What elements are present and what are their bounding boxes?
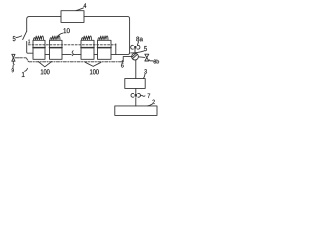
valve 8a body xyxy=(134,46,136,49)
leader for label 2 xyxy=(148,104,153,106)
label 100 left xyxy=(41,69,50,74)
dashed pipe segment xyxy=(20,57,26,59)
node label 1 (small) xyxy=(28,40,30,44)
valve 7 brackets xyxy=(131,93,141,97)
label 4 xyxy=(84,3,87,8)
pipe from tank 3 to valve 7 xyxy=(135,88,137,93)
series connector canister2-3 with break xyxy=(62,53,81,55)
supply valve 9 xyxy=(12,54,15,61)
pump internal marks xyxy=(132,53,137,58)
divider canister 3 xyxy=(81,47,94,49)
label 8b xyxy=(154,59,159,63)
wavy leader for label 7 xyxy=(140,94,145,97)
leader for label 5 xyxy=(16,36,22,38)
label 100 right xyxy=(90,69,99,74)
series connector canister1-2 xyxy=(45,53,50,55)
label 100 left pair leaders xyxy=(38,62,52,67)
heater coil on canister 3 xyxy=(81,36,91,40)
wire from box 4 right down right side xyxy=(84,16,130,54)
power supply box 4 xyxy=(61,11,84,23)
pipe riser to pump xyxy=(123,57,131,62)
series connector canister3-4 xyxy=(94,53,98,55)
stub up to valve 8a xyxy=(134,49,136,53)
leader for label 9 xyxy=(12,65,14,68)
heater coil 10 on canister 1 xyxy=(33,36,43,40)
canister box 100 #4 xyxy=(98,40,112,59)
heater coil on canister 2 xyxy=(50,36,60,40)
leader for label 3 xyxy=(144,74,146,79)
heater coil on canister 4 xyxy=(98,36,108,40)
break squiggle xyxy=(72,51,73,56)
label 100 right pair leaders xyxy=(85,62,101,66)
label 5 (switch) xyxy=(13,36,16,41)
pipe from valve 7 to fuel cell 2 xyxy=(135,98,137,106)
canister box 100 #1 xyxy=(33,40,45,59)
pipe from pump to valve 8b xyxy=(138,56,144,59)
leader for label 5 right xyxy=(131,51,144,53)
canister box 100 #2 xyxy=(50,40,63,59)
exhaust valve 8b xyxy=(145,54,149,61)
fuel cell box 2 xyxy=(115,106,157,116)
leader for label 1 xyxy=(25,68,28,71)
divider canister 1 xyxy=(33,47,45,49)
wire below switch down to heater line xyxy=(27,42,33,54)
valve 7 body xyxy=(135,94,137,97)
dashed pipe step down xyxy=(27,58,29,61)
label 6 xyxy=(121,63,123,67)
canister box 100 #3 xyxy=(81,40,94,59)
buffer tank box 3 xyxy=(125,79,145,89)
valve 8a brackets xyxy=(131,45,140,49)
leader for label 4 xyxy=(76,8,84,11)
leader for label 6 xyxy=(121,61,123,63)
valve 9 center knot xyxy=(13,57,14,58)
wavy leader for label 8b xyxy=(149,60,153,62)
vertical link dashed line to series line xyxy=(115,44,117,55)
leader for label 8a xyxy=(137,42,138,45)
label 5 (right) xyxy=(144,46,147,51)
valve 8b center knot xyxy=(146,57,147,58)
gas pipe from valve 9 xyxy=(15,57,19,59)
dashed heater wiring line xyxy=(28,44,115,46)
label 9 xyxy=(12,68,14,72)
wire from box 4 left to switch xyxy=(27,16,61,31)
divider canister 4 xyxy=(98,47,112,49)
pipe down from pump to tank 3 xyxy=(135,60,137,79)
label 2 xyxy=(152,100,154,104)
valve 9 bottom stub xyxy=(12,61,15,64)
pump 6 circle xyxy=(132,53,139,60)
label 1 (system) xyxy=(22,72,25,77)
label 8a xyxy=(136,37,143,42)
leader for label 10 xyxy=(58,33,63,36)
label 10 xyxy=(64,28,70,33)
label 7 xyxy=(148,94,150,98)
switch 5 blade xyxy=(23,31,27,39)
main gas pipe (dash-dot) xyxy=(29,61,123,63)
label 3 xyxy=(144,69,147,73)
divider canister 2 xyxy=(50,47,63,49)
